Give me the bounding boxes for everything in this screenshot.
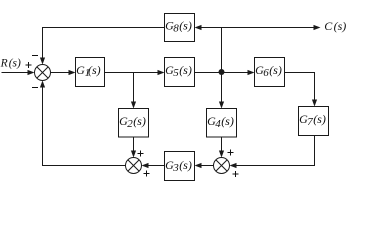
svg-text:(s): (s) [179, 63, 192, 77]
block G7 [299, 107, 329, 136]
arrowhead into G4 top [219, 102, 224, 109]
arrowhead into S2 top [131, 151, 136, 158]
label G4(s) [207, 114, 234, 130]
wire top line to C(s) output [222, 27, 315, 29]
wire G2 output down to S2 [133, 138, 135, 152]
summing junction S3 [214, 158, 230, 174]
sign + at S2 right input [144, 171, 150, 177]
label C(s) [324, 19, 346, 33]
wire G7 output down and left to S3 [236, 136, 315, 166]
svg-text:(s): (s) [334, 19, 347, 33]
sign - at S1 top input [32, 55, 38, 57]
wire node down to G4 [221, 73, 223, 103]
sign - at S1 bottom input [32, 87, 38, 89]
svg-text:(s): (s) [88, 63, 101, 77]
block G5 [165, 58, 195, 87]
arrowhead into S1 bottom [40, 81, 45, 88]
svg-text:(s): (s) [133, 114, 146, 128]
summing junction S1 [35, 65, 51, 81]
arrowhead into S1 left [28, 70, 35, 75]
svg-text:(s): (s) [179, 19, 192, 33]
label G2(s) [119, 114, 146, 130]
node junction dot after G5 [219, 69, 225, 75]
arrowhead into G1 [69, 70, 76, 75]
arrowhead into G6 [248, 70, 255, 75]
wire R(s) input to summing junction S1 [2, 72, 29, 74]
summing junction S2 [126, 158, 142, 174]
svg-text:(s): (s) [9, 57, 21, 69]
arrowhead into G5 [158, 70, 165, 75]
label G7(s) [299, 112, 326, 128]
block G6 [255, 58, 285, 87]
arrowhead at C(s) [314, 25, 321, 30]
block G4 [207, 109, 237, 138]
wire G1 to G5 [105, 72, 159, 74]
sign + at S3 top input [228, 150, 234, 156]
block G1 [76, 58, 105, 87]
wire G6 output right and down to G7 [285, 73, 315, 101]
wire S1 to G1 [51, 72, 70, 74]
wire S2 output left and up to S1 bottom [43, 87, 126, 166]
wire G3 output to S2 [148, 165, 165, 167]
wire top line toward G8 [201, 27, 222, 29]
label G8(s) [165, 19, 192, 35]
wire G8 output left and down to S1 top [43, 28, 165, 59]
wire G5 to G6 [195, 72, 249, 74]
wire G4 output down to S3 [221, 138, 223, 152]
label G5(s) [165, 63, 192, 79]
svg-text:C: C [324, 19, 333, 33]
sign + at S3 right input [233, 171, 239, 177]
svg-text:(s): (s) [269, 63, 282, 77]
arrowhead into G3 right [195, 163, 202, 168]
label G3(s) [165, 158, 192, 174]
label G6(s) [255, 63, 282, 79]
block G3 [165, 152, 195, 181]
svg-text:R: R [0, 57, 8, 69]
label G1(s) [76, 63, 101, 79]
arrowhead into G2 top [131, 102, 136, 109]
arrowhead into S1 top [40, 58, 45, 65]
svg-text:(s): (s) [221, 114, 234, 128]
svg-text:(s): (s) [313, 112, 326, 126]
svg-text:(s): (s) [179, 158, 192, 172]
wire node up to top line [221, 28, 223, 73]
block G8 [165, 14, 195, 42]
block G2 [119, 109, 149, 138]
sign + at S2 top input [138, 151, 144, 157]
label R(s) [0, 57, 21, 69]
arrowhead into S3 right [230, 163, 237, 168]
wire branch at node down to G2 [133, 73, 135, 103]
wire S3 output to G3 [201, 165, 214, 167]
arrowhead into S2 right [142, 163, 149, 168]
arrowhead into G7 top [312, 100, 317, 107]
sign + at S1 input [26, 62, 32, 68]
arrowhead into G8 right side [195, 25, 202, 30]
arrowhead into S3 top [219, 151, 224, 158]
